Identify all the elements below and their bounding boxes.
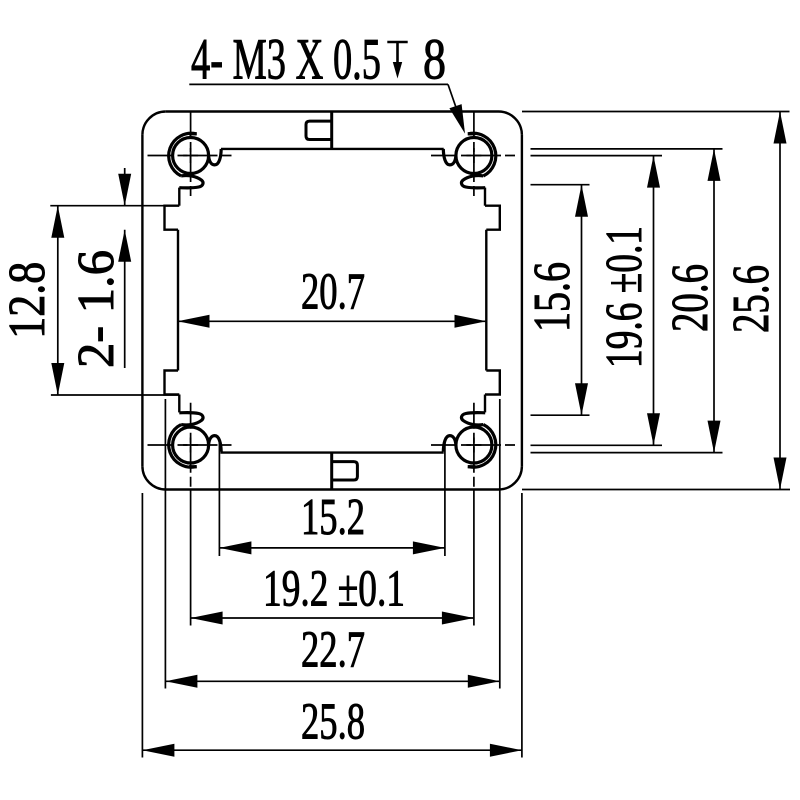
ext line 19.6 bottom	[531, 444, 663, 446]
enclosure outer wall top edge	[166, 110, 499, 112]
dim 25.8 arrow right	[490, 744, 522, 757]
ext line 25.6 bottom	[522, 489, 790, 491]
depth symbol	[387, 42, 407, 66]
left wall inner surface upper stub	[178, 188, 180, 206]
ext line 25.6 top	[522, 111, 790, 113]
dim 12.8 arrow bottom	[51, 363, 64, 395]
dim 25.6 line	[779, 112, 781, 490]
enclosure outer wall left edge	[141, 135, 143, 466]
svg-text:20.6: 20.6	[662, 264, 719, 332]
dim 15.2 arrow left	[219, 541, 251, 554]
ext line 19.6 top	[531, 155, 663, 157]
screw boss bottom-left	[169, 413, 222, 468]
dim 22.7 line	[165, 680, 499, 682]
dim 2-1.6 arrow down	[118, 174, 131, 206]
centerline top-right boss horizontal	[431, 155, 516, 157]
dim 20.6 line	[713, 149, 715, 453]
dim 15.6 arrow bottom	[575, 383, 588, 415]
dim 12.8 line	[57, 206, 59, 395]
leader line	[189, 83, 448, 85]
ext line 22.7 left	[164, 399, 166, 689]
svg-text:12.8: 12.8	[0, 262, 56, 339]
ext line 15.2 right	[444, 442, 446, 556]
bottom wall inner surface	[221, 451, 444, 453]
outer corner radius top-right	[499, 112, 522, 135]
dim 22.7 arrow left	[165, 675, 197, 688]
dim 15.2 line	[219, 547, 445, 549]
svg-text:19.2 ±0.1: 19.2 ±0.1	[263, 561, 405, 618]
svg-text:20.7: 20.7	[301, 264, 365, 321]
ext line 19.2 right	[473, 490, 475, 626]
dim 15.6 line	[581, 185, 583, 416]
centerline bottom-right boss horizontal	[431, 444, 516, 446]
dim 2-1.6 line upper	[124, 168, 126, 206]
screw boss top-left	[169, 133, 222, 188]
dim 20.6 arrow bottom	[708, 421, 721, 453]
ext line 15.6 top	[531, 184, 590, 186]
svg-text:8: 8	[423, 27, 446, 92]
right wall inner surface middle	[485, 230, 487, 371]
enclosure outer wall right edge	[521, 135, 523, 466]
dim 19.2 line	[191, 617, 474, 619]
leader arrowhead	[449, 104, 465, 134]
dim 15.6 arrow top	[575, 185, 588, 217]
dim 19.2 arrow left	[191, 612, 223, 625]
right wall inner surface lower stub	[484, 395, 486, 413]
centerline top-left boss horizontal	[148, 155, 234, 157]
ext line 19.2 left	[190, 490, 192, 626]
dim 25.6 arrow top	[774, 112, 787, 144]
dim 20.7 line	[178, 320, 487, 322]
outer corner radius bottom-left	[142, 466, 165, 489]
ext line 22.7 right	[499, 399, 501, 689]
ext line 15.2 left	[218, 442, 220, 556]
top wall tongue-groove notch	[306, 121, 332, 139]
screw boss bottom-right	[443, 413, 496, 468]
dim 15.2 arrow right	[413, 541, 445, 554]
dim 25.8 line	[142, 749, 522, 751]
ext line 25.8 left	[141, 493, 143, 758]
bottom wall parting line	[330, 453, 333, 490]
dim 25.8 arrow left	[142, 744, 174, 757]
top wall inner surface	[221, 148, 444, 150]
svg-text:25.8: 25.8	[301, 694, 365, 751]
ext line 25.8 right	[521, 493, 523, 758]
screw boss top-right	[443, 133, 496, 188]
left wall upper PCB groove	[165, 206, 180, 230]
dim 20.7 arrow left	[178, 315, 210, 328]
svg-text:15.6: 15.6	[524, 262, 581, 332]
centerline bottom-right boss vertical	[473, 403, 475, 490]
right wall lower PCB groove	[485, 371, 500, 395]
centerline top-right boss vertical	[473, 112, 475, 198]
left wall inner surface middle	[177, 230, 179, 371]
centerline bottom-left boss vertical	[190, 403, 192, 490]
svg-text:19.6 ±0.1: 19.6 ±0.1	[596, 226, 653, 368]
dim 20.7 arrow right	[455, 315, 487, 328]
right wall inner surface upper stub	[484, 188, 486, 206]
dim 19.6 arrow bottom	[647, 413, 660, 445]
svg-text:22.7: 22.7	[301, 622, 365, 679]
left wall lower PCB groove	[165, 371, 180, 395]
svg-text:2- 1.6: 2- 1.6	[68, 250, 125, 368]
svg-text:4- M3 X 0.5: 4- M3 X 0.5	[191, 27, 381, 92]
svg-text:25.6: 25.6	[723, 265, 780, 333]
ext line 20.6 bottom	[531, 452, 723, 454]
centerline top-left boss vertical	[190, 112, 192, 196]
top wall parting line	[330, 112, 333, 149]
dim 12.8 arrow top	[51, 206, 64, 238]
dim 19.6 line	[653, 156, 655, 446]
ext line 15.6 bottom	[531, 414, 590, 416]
outer corner radius bottom-right	[499, 466, 522, 489]
ext line 12.8 bottom	[51, 394, 179, 396]
dim 20.6 arrow top	[708, 149, 721, 181]
dim 2-1.6 line lower	[124, 230, 126, 368]
dim 25.6 arrow bottom	[774, 458, 787, 490]
svg-text:15.2: 15.2	[301, 489, 365, 546]
right wall upper PCB groove	[485, 206, 500, 230]
dim 19.6 arrow top	[647, 156, 660, 188]
centerline bottom-left boss horizontal	[148, 444, 234, 446]
ext line 12.8 top	[50, 205, 164, 207]
enclosure outer wall bottom edge	[166, 488, 499, 490]
dim 22.7 arrow right	[468, 675, 500, 688]
left wall inner surface lower stub	[178, 395, 180, 413]
ext line 20.6 top	[531, 148, 723, 150]
dim 2-1.6 arrow up	[118, 230, 131, 262]
outer corner radius top-left	[142, 112, 165, 135]
dim 19.2 arrow right	[442, 612, 474, 625]
bottom wall tongue-groove notch	[332, 462, 358, 480]
